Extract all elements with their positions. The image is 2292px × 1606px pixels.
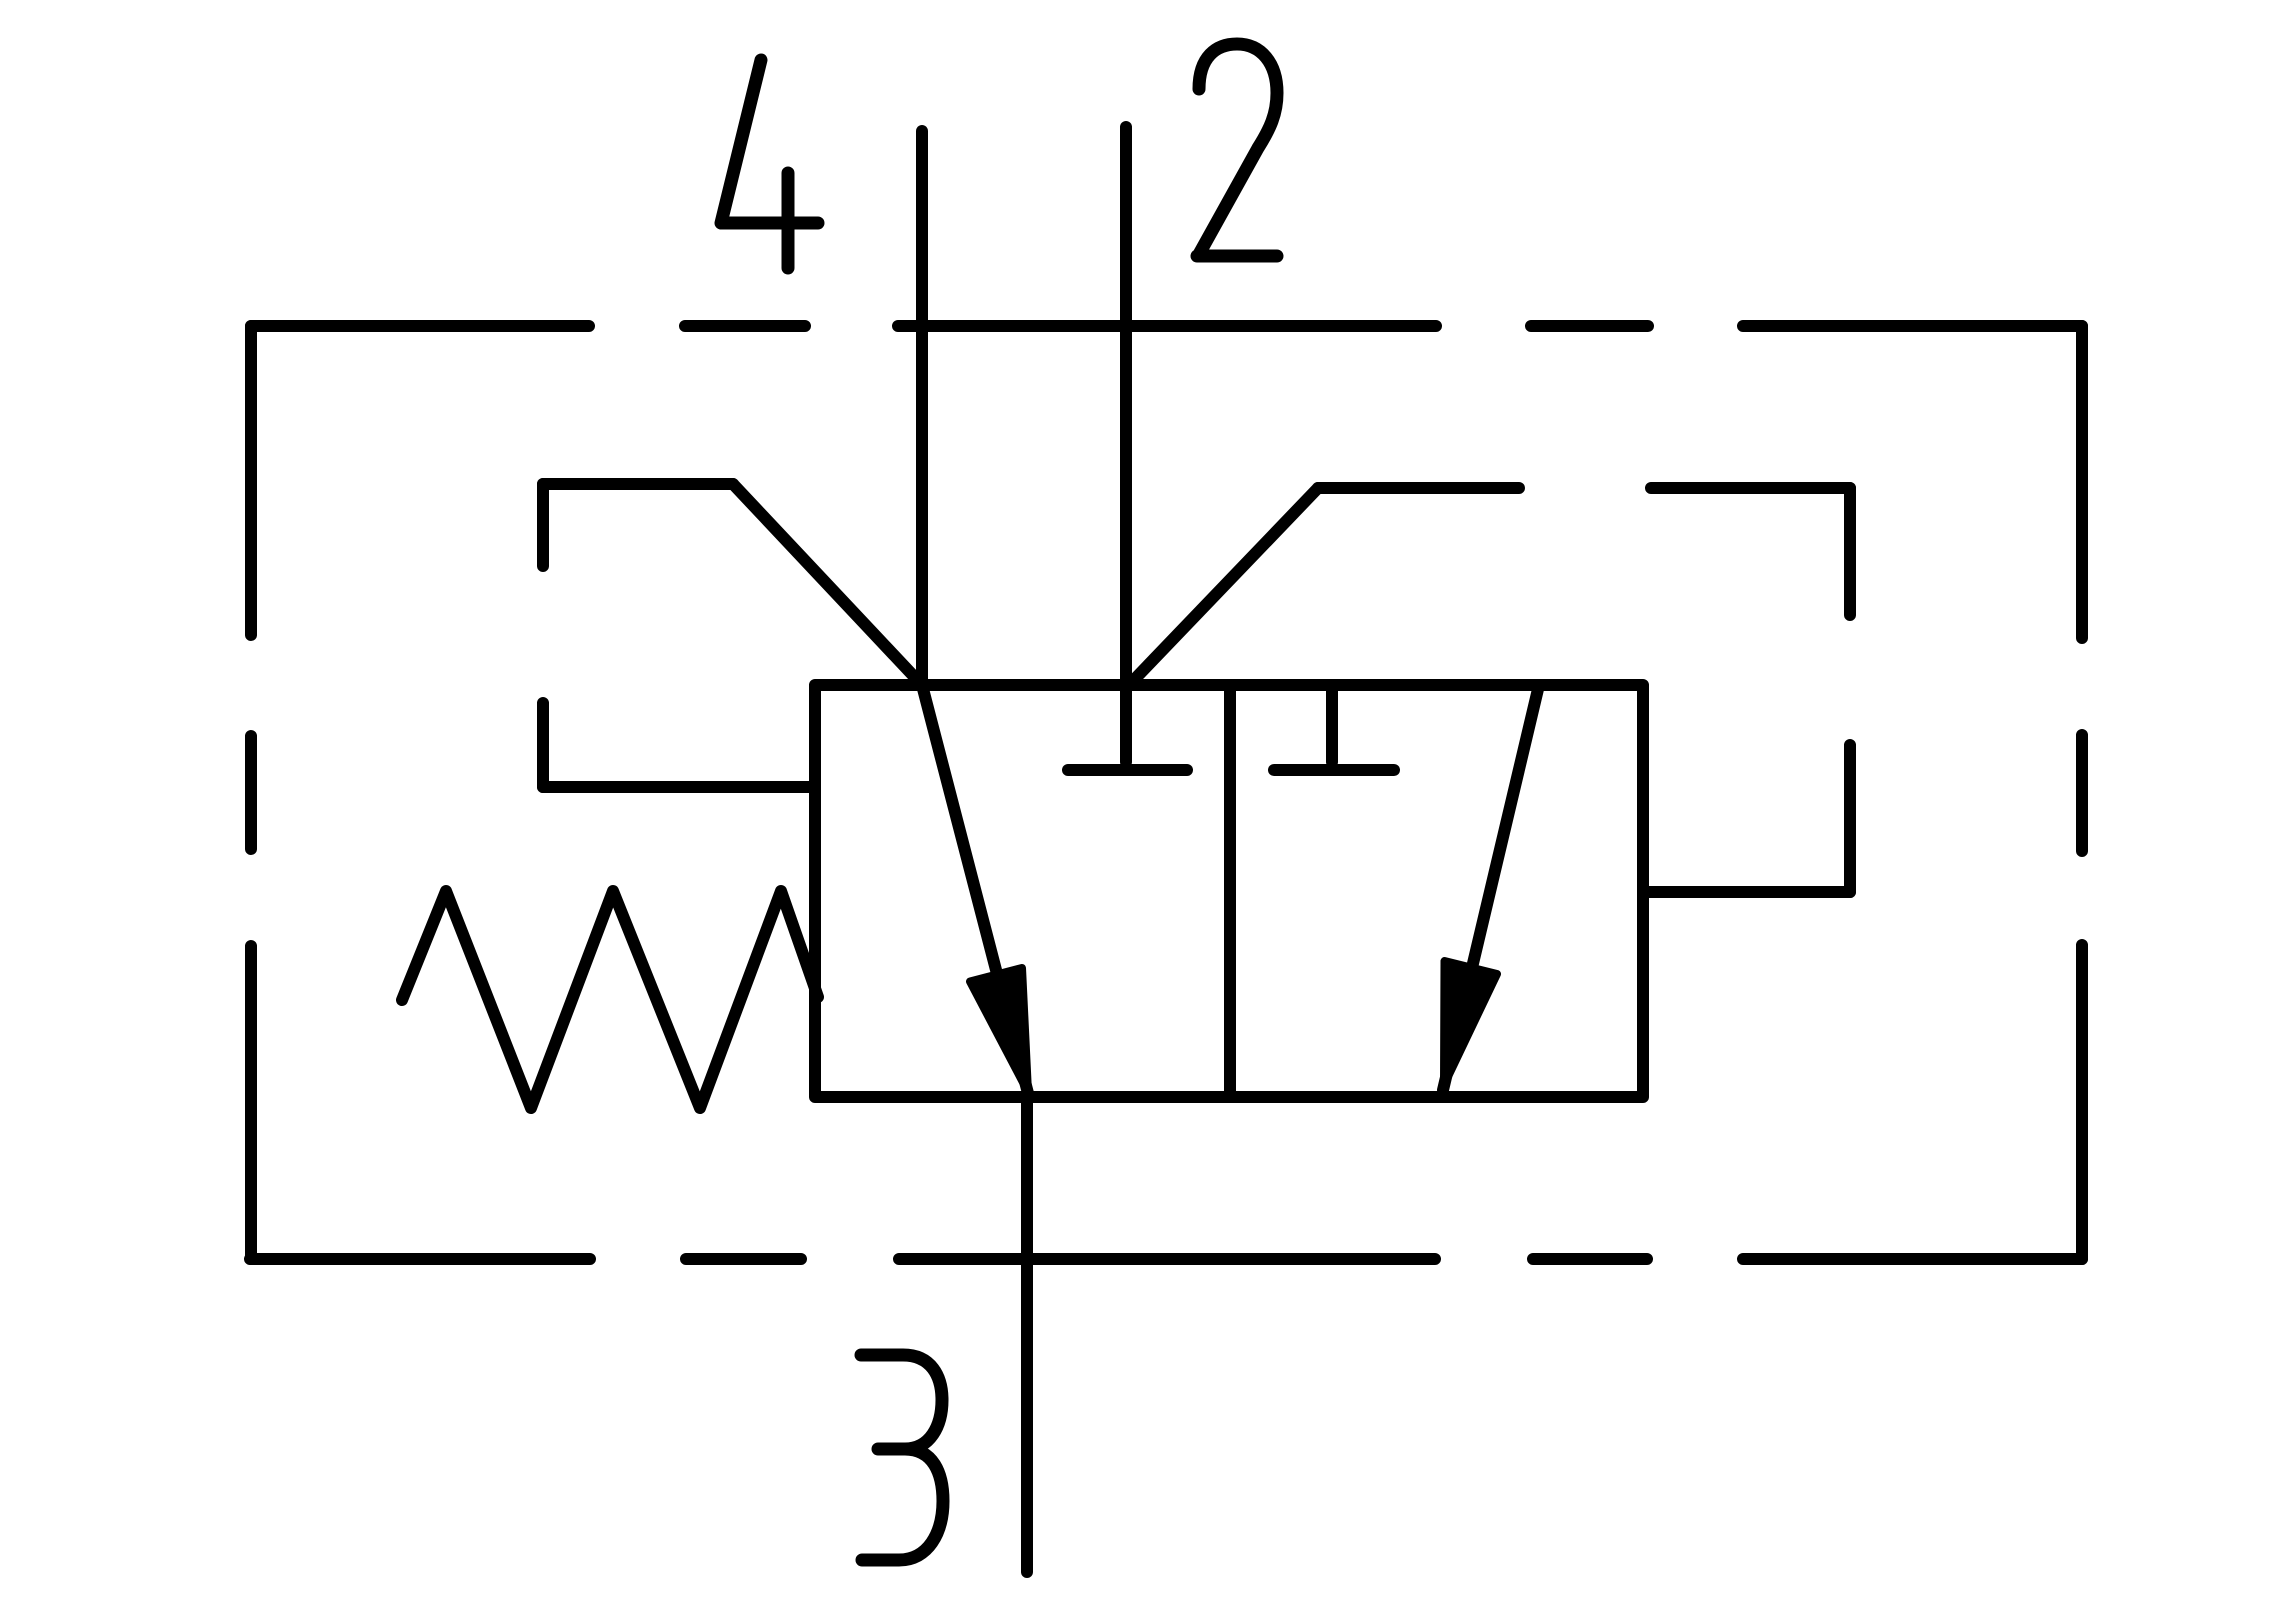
pilot line right top segment xyxy=(1318,482,1850,494)
port 2 label xyxy=(1197,44,1277,256)
pilot line left bottom segment xyxy=(543,781,815,793)
port 4 label xyxy=(721,60,818,268)
enclosure dashed border top xyxy=(251,320,2082,332)
port 4 line xyxy=(916,131,928,685)
spring xyxy=(402,891,818,1108)
pilot line right bottom segment xyxy=(1643,886,1850,898)
right position blocked port T bar xyxy=(1274,764,1394,776)
pilot line right bracket vertical xyxy=(1844,488,1856,892)
pilot line right diagonal xyxy=(1129,488,1318,685)
port 3 label xyxy=(861,1355,943,1560)
enclosure dashed border left xyxy=(245,326,257,1259)
left position flow path arrow shaft xyxy=(922,685,1029,1097)
right position flow path arrow shaft xyxy=(1443,685,1539,1090)
left position blocked port T xyxy=(1068,764,1187,776)
enclosure dashed border bottom xyxy=(250,1253,2082,1265)
right position blocked port T stem xyxy=(1326,685,1338,762)
left position flow path arrowhead xyxy=(970,968,1028,1092)
port 3 line xyxy=(1021,1097,1033,1572)
enclosure dashed border right xyxy=(2076,326,2088,1259)
pilot line left bracket top segment xyxy=(543,478,733,490)
pilot line left diagonal xyxy=(733,484,922,685)
right position flow path arrowhead xyxy=(1444,961,1497,1085)
port 2 line xyxy=(1120,127,1132,762)
pilot line left bracket vertical xyxy=(537,484,549,787)
valve position divider xyxy=(1224,685,1236,1097)
valve body box xyxy=(815,685,1643,1097)
